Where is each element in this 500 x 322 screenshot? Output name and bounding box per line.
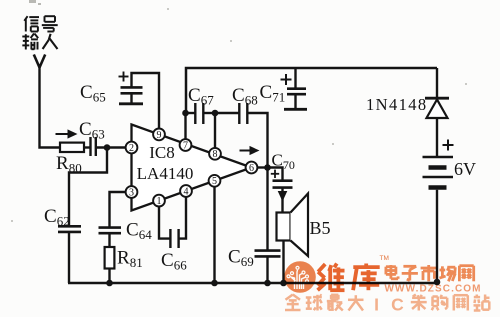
- wire pin8 riser: [214, 113, 216, 150]
- junction C67/C68/pin8: [212, 110, 219, 117]
- wire rail node to C67 left: [186, 112, 196, 114]
- svg-text:I: I: [374, 295, 379, 315]
- wire output node to C70: [268, 168, 283, 181]
- pin 4: [180, 185, 192, 197]
- junction battery/rail: [434, 279, 441, 286]
- scan artifacts: [11, 0, 467, 222]
- svg-text:3: 3: [129, 187, 134, 198]
- svg-text:WWW.DZSC.COM: WWW.DZSC.COM: [385, 284, 482, 295]
- capacitor C62: [58, 225, 81, 228]
- wire C68 right, down to pin6 node: [247, 113, 267, 168]
- capacitor C69: [255, 249, 281, 252]
- polarity + of C70: [271, 173, 279, 175]
- svg-text:9: 9: [157, 130, 162, 141]
- watermark text 维库: [318, 264, 325, 272]
- capacitor C70 (electrolytic): [273, 179, 293, 182]
- capacitor C68: [238, 103, 240, 124]
- junction pin7/C67/rail: [182, 110, 189, 117]
- label 信号 (signal): [24, 16, 27, 21]
- wire pin5 riser to ground rail: [213, 187, 215, 284]
- junction speaker/rail: [280, 280, 287, 287]
- wire pin9 riser to C65 line: [132, 73, 160, 130]
- watermark text 全球最大IC采购网站: [286, 295, 293, 300]
- svg-text:TM: TM: [380, 255, 389, 262]
- wire supply rail down to diode: [436, 68, 438, 98]
- pin 7: [180, 139, 192, 151]
- pin 9: [153, 129, 165, 141]
- wire pin7 riser: [184, 113, 186, 140]
- svg-text:4: 4: [184, 186, 189, 197]
- arrow signal direction before output node: [240, 150, 252, 152]
- wire pin4 riser to C66: [179, 197, 186, 239]
- wire pin6 to output node: [257, 166, 267, 168]
- svg-text:LA4140: LA4140: [137, 164, 194, 183]
- wire C69 to ground rail: [266, 256, 268, 283]
- wire speaker to ground rail: [282, 241, 284, 284]
- pin 1: [153, 195, 165, 207]
- watermark logo circle: [284, 261, 316, 293]
- battery 6V: [423, 156, 454, 158]
- wire C63 to pin2: [96, 146, 126, 148]
- wire R81 to ground rail: [108, 269, 110, 284]
- wire diode to battery: [436, 118, 438, 156]
- capacitor C64: [99, 226, 122, 229]
- pin 3: [126, 186, 138, 198]
- ground symbol under C65: [130, 93, 132, 103]
- wire pin8 node to C68 left: [215, 112, 239, 114]
- arrow signal direction above R80: [56, 133, 70, 135]
- wire R80 to C63: [84, 146, 91, 148]
- wire C70 to speaker with arrow: [281, 188, 283, 213]
- svg-text:IC8: IC8: [149, 143, 175, 162]
- wire node down-left to C62: [69, 148, 107, 227]
- capacitor C67: [194, 103, 196, 124]
- resistor R80: [60, 143, 84, 152]
- label 输入 (input): [22, 36, 29, 38]
- ground symbol under C71: [294, 94, 296, 109]
- pin 2: [126, 142, 138, 154]
- pin 8: [209, 148, 221, 160]
- wire C62 to ground rail: [68, 232, 70, 283]
- polarity + of C65: [119, 76, 129, 78]
- svg-text:8: 8: [213, 149, 218, 160]
- junction R81/rail: [106, 280, 113, 287]
- loudspeaker B5 driver box: [277, 213, 291, 241]
- svg-text:5: 5: [212, 176, 217, 187]
- wire output node down to C69: [266, 168, 268, 251]
- resistor R81: [105, 247, 115, 269]
- wire input vertical+horizontal to R80: [40, 66, 61, 148]
- svg-text:6: 6: [249, 163, 254, 174]
- wire C64 to R81: [108, 233, 110, 247]
- pin 6: [246, 162, 258, 174]
- svg-text:6V: 6V: [454, 159, 476, 179]
- capacitor C65 (electrolytic): [121, 86, 143, 89]
- svg-text:2: 2: [129, 143, 134, 154]
- op-amp IC8 triangle: [132, 125, 252, 211]
- junction node after C63: [104, 144, 111, 151]
- capacitor C66: [169, 229, 171, 248]
- positive supply rail (top): [186, 68, 437, 113]
- wire C67 right to pin8 node: [203, 112, 215, 114]
- polarity + of C71: [281, 79, 292, 81]
- junction pin5/rail: [211, 280, 218, 287]
- capacitor C71 (electrolytic) on supply rail: [294, 68, 296, 88]
- svg-text:B5: B5: [310, 218, 331, 238]
- pin 5: [209, 175, 221, 187]
- wire pin3 to C64: [110, 192, 127, 228]
- svg-text:1N4148: 1N4148: [366, 95, 428, 114]
- ground rail (bottom): [68, 282, 437, 285]
- junction C69/rail: [264, 280, 271, 287]
- wire battery to ground rail: [436, 190, 438, 283]
- loudspeaker B5 horn: [291, 194, 309, 257]
- capacitor C63: [89, 137, 91, 156]
- wire pin1 riser to C66: [159, 206, 170, 239]
- junction output node: [264, 164, 271, 171]
- svg-text:7: 7: [183, 140, 188, 151]
- svg-text:1: 1: [157, 196, 162, 207]
- diode 1N4148: [425, 97, 449, 100]
- svg-text:C: C: [391, 295, 404, 315]
- polarity + of battery: [443, 144, 454, 146]
- watermark text 电子市场网: [386, 265, 396, 268]
- node: signal input arrowhead: [34, 55, 40, 68]
